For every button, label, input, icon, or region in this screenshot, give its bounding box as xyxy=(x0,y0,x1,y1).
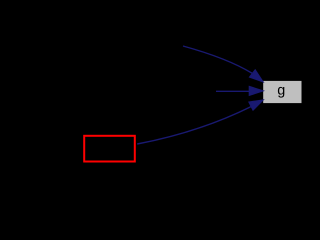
wire edge1 curve (top caller to g) xyxy=(183,46,252,73)
node g label xyxy=(278,87,284,98)
wire edge3 curve (node f to g) xyxy=(137,107,251,144)
wire edge2 arrowhead xyxy=(249,86,263,95)
node f (current function, red border) xyxy=(84,136,135,162)
wire edge3 arrowhead xyxy=(249,100,264,111)
call graph canvas xyxy=(0,0,308,169)
node g (grey filled) xyxy=(263,81,301,103)
wire edge2 line (middle caller to g) xyxy=(216,90,250,92)
wire edge1 arrowhead xyxy=(249,70,263,82)
